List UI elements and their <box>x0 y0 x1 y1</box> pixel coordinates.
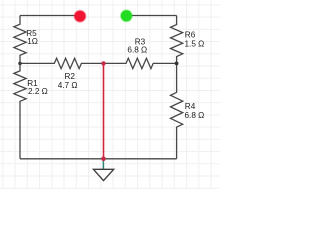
svg-text:1Ω: 1Ω <box>27 37 38 46</box>
svg-text:1.5 Ω: 1.5 Ω <box>185 39 205 48</box>
svg-text:R2: R2 <box>65 72 76 81</box>
svg-text:R6: R6 <box>185 31 196 40</box>
svg-text:6.8 Ω: 6.8 Ω <box>127 45 147 54</box>
svg-text:6.8 Ω: 6.8 Ω <box>185 111 205 120</box>
svg-text:4.7 Ω: 4.7 Ω <box>58 81 78 90</box>
svg-text:R4: R4 <box>185 102 196 111</box>
svg-text:2.2 Ω: 2.2 Ω <box>28 87 48 96</box>
